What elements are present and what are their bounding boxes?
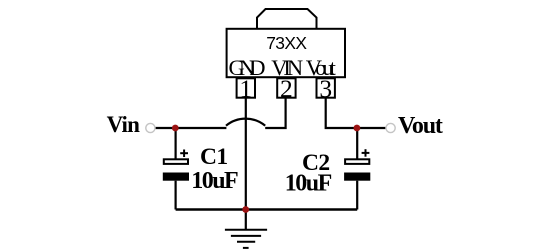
svg-text:2: 2 (280, 74, 293, 103)
svg-text:Vin: Vin (107, 112, 141, 137)
svg-text:73XX: 73XX (266, 33, 307, 53)
svg-text:3: 3 (319, 74, 332, 103)
svg-text:C1: C1 (200, 144, 228, 170)
svg-text:10uF: 10uF (285, 170, 332, 196)
svg-text:10uF: 10uF (191, 168, 238, 194)
svg-text:1: 1 (239, 74, 252, 103)
svg-text:Vout: Vout (398, 113, 443, 139)
